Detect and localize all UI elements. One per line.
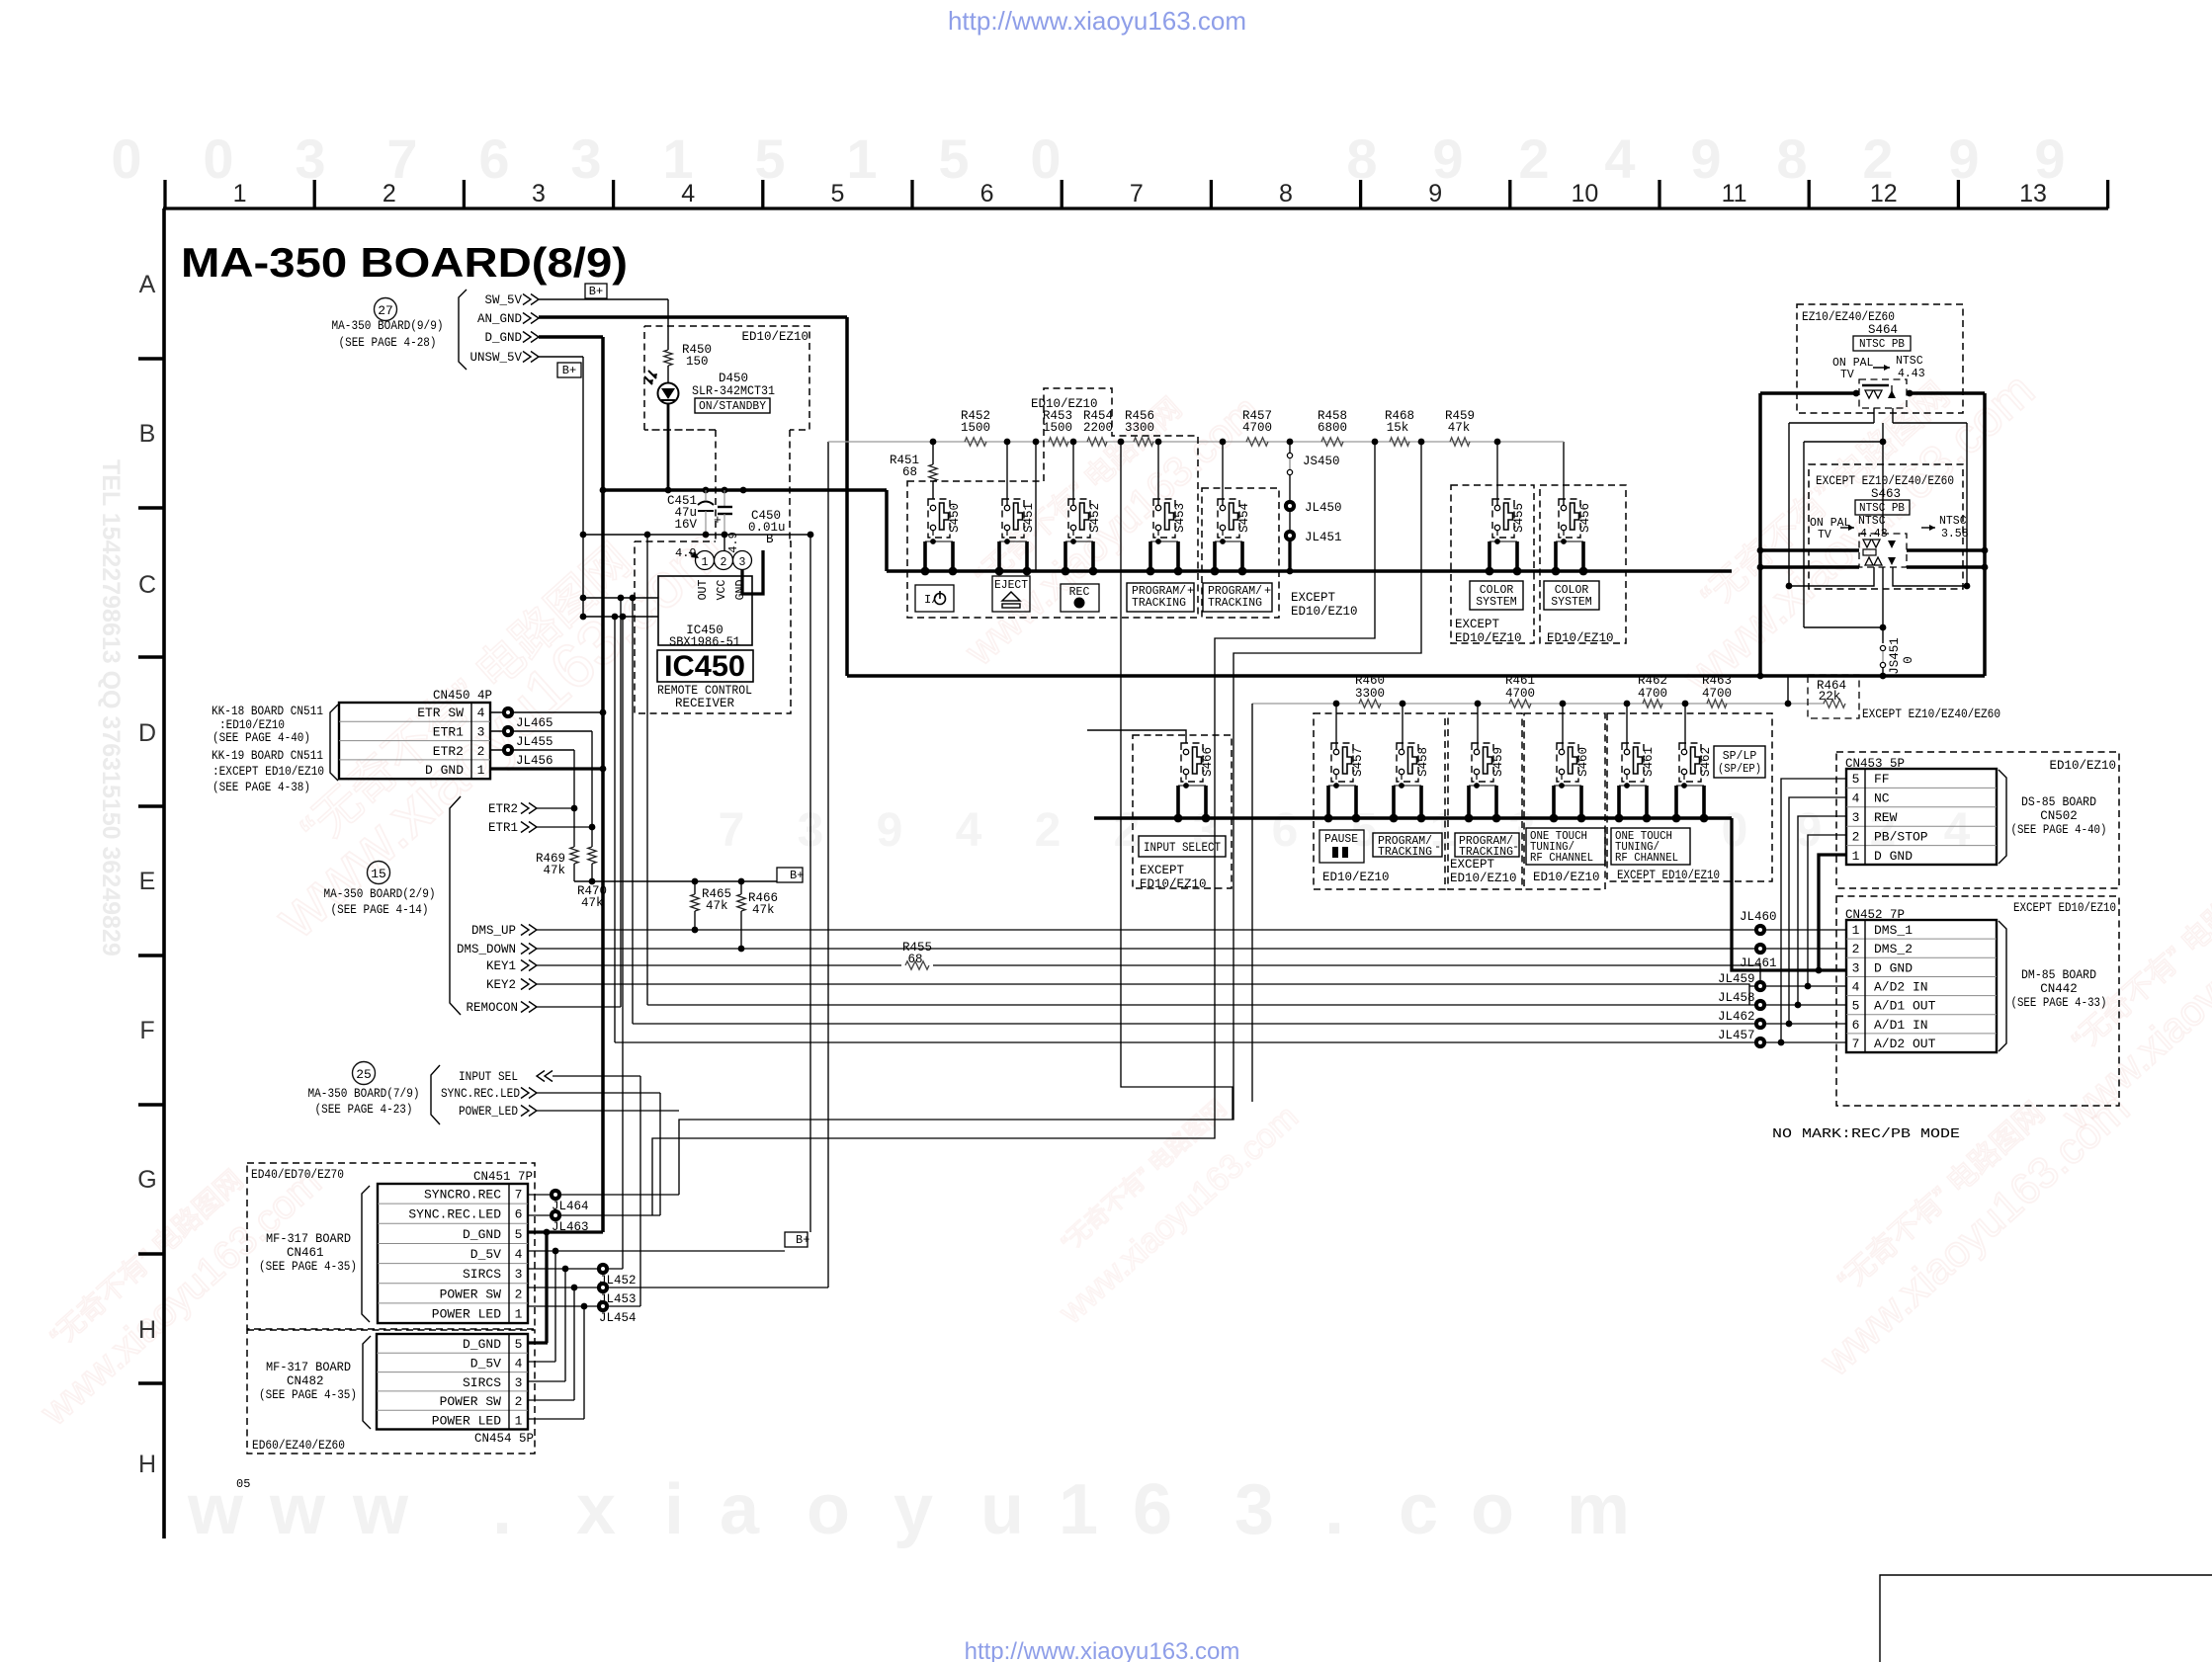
wire loop pin6 chain <box>652 442 1375 1215</box>
svg-text:ETR2: ETR2 <box>488 802 518 816</box>
svg-text:SYSTEM: SYSTEM <box>1551 596 1592 609</box>
svg-text:4: 4 <box>477 706 485 720</box>
switch S460 contacts U <box>1552 786 1556 818</box>
brace signal group low <box>431 1065 440 1124</box>
svg-text:1: 1 <box>515 1413 523 1428</box>
svg-text::ED10/EZ10: :ED10/EZ10 <box>219 718 285 732</box>
dashed box IC450 receiver <box>635 541 791 713</box>
svg-text:CN442: CN442 <box>2040 982 2078 996</box>
ref circle 25 <box>353 1062 376 1085</box>
svg-text:REMOTE CONTROL: REMOTE CONTROL <box>657 684 752 698</box>
svg-text:H: H <box>138 1316 156 1344</box>
wire sync rec led vertical <box>659 1093 661 1215</box>
svg-text:0: 0 <box>203 127 233 190</box>
ref circle 27 <box>375 298 397 321</box>
wire remocon vertical <box>620 598 622 1007</box>
dashed box PAUSE group <box>1314 713 1445 889</box>
B+ label mid <box>777 868 803 882</box>
svg-text:o: o <box>1471 1470 1514 1549</box>
svg-text:0: 0 <box>1030 127 1061 190</box>
switch S457 <box>1331 743 1353 782</box>
svg-text:MA-350 BOARD(8/9): MA-350 BOARD(8/9) <box>181 239 628 286</box>
dashed box ED10/EZ10 D450 <box>644 326 809 430</box>
svg-text:EXCEPT ED10/EZ10: EXCEPT ED10/EZ10 <box>2013 901 2116 915</box>
svg-text:A/D1 IN: A/D1 IN <box>1874 1018 1928 1033</box>
svg-text:7: 7 <box>515 1188 523 1203</box>
svg-text:NTSC PB: NTSC PB <box>1859 502 1905 515</box>
wire S463 feed horizontal <box>1804 441 1883 443</box>
switch S456 <box>1559 499 1580 538</box>
wire bottom thick rail <box>847 674 1985 678</box>
svg-text:(SEE PAGE 4-23): (SEE PAGE 4-23) <box>315 1103 413 1117</box>
wire D_GND down to CN454 <box>545 1232 548 1343</box>
svg-text:S461: S461 <box>1642 747 1656 777</box>
svg-text:u: u <box>980 1470 1024 1549</box>
ic450 body <box>658 576 752 645</box>
switch S450 <box>928 499 950 538</box>
svg-text:REW: REW <box>1874 810 1898 825</box>
resistor R462 <box>1643 700 1662 707</box>
wire right block left vertical <box>1758 393 1762 676</box>
svg-text:TV: TV <box>1840 369 1854 381</box>
svg-text:TRACKING: TRACKING <box>1378 846 1432 859</box>
svg-text:1: 1 <box>515 1306 523 1321</box>
jumper link JL460 <box>1754 924 1766 936</box>
svg-text:4: 4 <box>515 1356 523 1371</box>
svg-text:RF CHANNEL: RF CHANNEL <box>1530 852 1593 865</box>
switch S456 contacts U <box>1554 541 1558 571</box>
svg-text:47k: 47k <box>581 896 604 910</box>
label COLOR SYSTEM 2 <box>1544 581 1599 610</box>
svg-text:D GND: D GND <box>1874 960 1913 975</box>
svg-text:(SEE PAGE 4-28): (SEE PAGE 4-28) <box>339 336 437 350</box>
switch S451 contacts U <box>997 541 1001 571</box>
ref circle 15 <box>368 862 390 884</box>
svg-text:DM-85 BOARD: DM-85 BOARD <box>2021 968 2096 982</box>
svg-text:2: 2 <box>383 180 396 208</box>
svg-text:1: 1 <box>1059 1470 1098 1549</box>
jumper link JL453 <box>597 1282 609 1293</box>
svg-text:S460: S460 <box>1576 747 1590 777</box>
left border line <box>162 208 166 1538</box>
svg-text:SIRCS: SIRCS <box>463 1375 501 1390</box>
svg-text:8: 8 <box>1776 127 1807 190</box>
svg-text:2: 2 <box>1852 942 1860 956</box>
wire S464 pins down <box>1873 408 1875 423</box>
svg-text:MA-350 BOARD(7/9): MA-350 BOARD(7/9) <box>308 1087 420 1101</box>
resistor R461 <box>1509 700 1531 707</box>
resistor R460 <box>1359 700 1381 707</box>
svg-text:i: i <box>664 1470 684 1549</box>
jumper link JL455 <box>490 730 592 732</box>
svg-text:6800: 6800 <box>1318 421 1347 435</box>
svg-text:TV: TV <box>1818 529 1831 541</box>
switch S462 <box>1679 743 1701 782</box>
svg-text:SP/LP: SP/LP <box>1723 750 1757 763</box>
svg-text:3: 3 <box>515 1375 523 1390</box>
brace signal group mid <box>450 796 461 1015</box>
svg-text:NTSC: NTSC <box>1939 515 1967 528</box>
pink watermark right <box>1643 330 2044 706</box>
wire CN453 PB/STOP <box>1808 835 1846 986</box>
dashed group box except S454 <box>1202 488 1279 618</box>
wire pin3 SIRCS <box>528 1268 623 1270</box>
svg-text:G: G <box>137 1166 156 1194</box>
svg-text:R463: R463 <box>1702 674 1732 688</box>
resistor R456 <box>1134 438 1153 446</box>
svg-text:R460: R460 <box>1355 674 1385 688</box>
jumper link JL450 <box>1284 500 1296 512</box>
svg-text:3.58: 3.58 <box>1941 528 1969 540</box>
svg-text:16V: 16V <box>674 518 697 532</box>
svg-text:EXCEPT: EXCEPT <box>1140 864 1185 877</box>
svg-text:POWER SW: POWER SW <box>440 1287 502 1301</box>
svg-text:+: + <box>1187 584 1194 598</box>
B+ label bottom <box>785 1232 808 1247</box>
wire S463 middle down <box>1882 567 1884 643</box>
svg-text:UNSW_5V: UNSW_5V <box>469 351 522 365</box>
wire D_GND bus vertical <box>601 337 605 1232</box>
svg-text:S450: S450 <box>948 503 962 533</box>
resistor R464 dashed box <box>1808 675 1859 718</box>
svg-text:7: 7 <box>719 804 745 857</box>
wire right drop from cap rail <box>808 535 810 642</box>
wire S466 feed <box>1087 730 1186 743</box>
svg-text:D_GND: D_GND <box>484 331 522 345</box>
svg-text:4: 4 <box>1852 791 1860 806</box>
wire S461 top <box>1626 704 1628 750</box>
switch S464 symbol <box>1862 384 1889 387</box>
svg-text:2: 2 <box>721 556 727 569</box>
svg-text:DMS_DOWN: DMS_DOWN <box>457 943 516 956</box>
svg-text:CN451 7P: CN451 7P <box>473 1170 533 1184</box>
switch S461 contacts U <box>1617 786 1621 818</box>
svg-text:SBX1986-51: SBX1986-51 <box>669 635 740 649</box>
svg-text:POWER_LED: POWER_LED <box>459 1105 518 1119</box>
svg-text:150: 150 <box>686 355 709 369</box>
pink watermark small bottom-center <box>1021 1063 1306 1331</box>
svg-text:A/D2 IN: A/D2 IN <box>1874 980 1928 995</box>
svg-text:KK-19 BOARD CN511: KK-19 BOARD CN511 <box>212 749 323 763</box>
svg-text:2: 2 <box>1114 804 1141 857</box>
switch S452 <box>1068 499 1090 538</box>
svg-text:ED10/EZ10: ED10/EZ10 <box>1031 397 1098 411</box>
svg-text:5: 5 <box>515 1337 523 1352</box>
svg-text:4.9: 4.9 <box>726 532 740 553</box>
wire CN450 D GND <box>490 767 603 770</box>
label NTSC PB S464 <box>1853 336 1911 351</box>
capacitor C450 <box>723 490 725 507</box>
svg-text:KEY2: KEY2 <box>486 978 516 992</box>
svg-text:SYSTEM: SYSTEM <box>1476 596 1517 609</box>
svg-text:CN461: CN461 <box>287 1246 324 1260</box>
svg-text:JL455: JL455 <box>516 735 553 749</box>
wire CN453 NC <box>1789 797 1846 1024</box>
svg-text:9: 9 <box>877 804 903 857</box>
svg-text:TRACKING: TRACKING <box>1132 597 1186 610</box>
svg-text:EXCEPT EZ10/EZ40/EZ60: EXCEPT EZ10/EZ40/EZ60 <box>1862 707 2000 721</box>
button PROGRAM/TRACKING - 1 <box>1373 833 1442 857</box>
svg-text:5: 5 <box>938 127 969 190</box>
svg-text:D_GND: D_GND <box>463 1337 501 1352</box>
svg-text:RECEIVER: RECEIVER <box>675 697 735 710</box>
pink watermark right-edge <box>2023 818 2212 1138</box>
svg-text:1: 1 <box>233 180 247 208</box>
jumper link JL461 <box>1754 943 1766 955</box>
svg-text:JL456: JL456 <box>516 754 553 768</box>
wire AN_GND vertical <box>845 317 849 676</box>
B+ label top <box>585 284 607 298</box>
wire LED to rail <box>667 404 670 490</box>
pink watermark center <box>926 354 1268 674</box>
svg-text:9: 9 <box>1690 127 1721 190</box>
svg-text:w: w <box>352 1470 409 1549</box>
svg-text:47k: 47k <box>543 864 565 877</box>
svg-text:NO MARK:REC/PB MODE: NO MARK:REC/PB MODE <box>1772 1127 1960 1142</box>
wire B+ feed <box>574 880 777 882</box>
svg-text:ED40/ED70/EZ70: ED40/ED70/EZ70 <box>251 1168 344 1182</box>
svg-text:(SEE PAGE 4-40): (SEE PAGE 4-40) <box>2011 823 2107 837</box>
switch S460 <box>1557 743 1578 782</box>
button PAUSE <box>1319 830 1364 863</box>
switch bus row1 <box>887 569 1732 573</box>
jumper link JL457 <box>1754 1037 1766 1048</box>
jumper JS450 <box>1289 444 1291 453</box>
dashed box COLOR SYSTEM ed10 <box>1540 485 1626 643</box>
wire JL451 to bus <box>1288 541 1291 571</box>
svg-text:D GND: D GND <box>425 763 464 778</box>
switch S453 contacts U <box>1149 541 1152 571</box>
wire loop pin7 SYNCRO.REC <box>679 442 1421 1195</box>
svg-text:CN482: CN482 <box>287 1374 324 1388</box>
svg-text:R461: R461 <box>1505 674 1535 688</box>
svg-text::EXCEPT ED10/EZ10: :EXCEPT ED10/EZ10 <box>213 765 324 779</box>
junction dots row2 <box>1333 701 1340 707</box>
resistor R454 <box>1087 438 1107 446</box>
svg-text:4: 4 <box>515 1247 523 1262</box>
svg-text:A/D2 OUT: A/D2 OUT <box>1874 1037 1936 1051</box>
wire S458 top <box>1402 704 1404 750</box>
switch S464 dashed box <box>1859 379 1907 408</box>
svg-text:NC: NC <box>1874 791 1890 806</box>
switch S454 contacts U <box>1213 541 1217 571</box>
svg-text:27: 27 <box>378 303 393 318</box>
resistor R463 <box>1707 700 1727 707</box>
svg-text:D_GND: D_GND <box>463 1227 501 1242</box>
svg-text:TEL 15422798613 QQ 376315150 3: TEL 15422798613 QQ 376315150 36249829 <box>97 459 125 956</box>
wire SW_5V <box>539 298 668 300</box>
svg-text:B+: B+ <box>796 1233 809 1247</box>
svg-text:JL457: JL457 <box>1718 1029 1755 1042</box>
wire thick S464 row <box>1760 391 1859 395</box>
wire mid vertical a <box>614 617 616 1042</box>
jumper link JL465 <box>490 711 603 713</box>
svg-text:9: 9 <box>1428 180 1442 208</box>
svg-text:S466: S466 <box>1201 747 1215 777</box>
switch S451 <box>1002 499 1024 538</box>
switch S458 <box>1397 743 1418 782</box>
wire mid vertical c <box>646 535 648 1005</box>
svg-text:EXCEPT: EXCEPT <box>1291 591 1336 605</box>
resistor R450 <box>664 350 672 366</box>
wire vertical POWER LED chain <box>583 1306 585 1419</box>
svg-text:http://www.xiaoyu163.com: http://www.xiaoyu163.com <box>965 1638 1240 1662</box>
wire mid vertical b <box>632 598 634 1024</box>
jumper link JL458 <box>1754 999 1766 1011</box>
label SP/LP box <box>1714 746 1765 778</box>
svg-text:x: x <box>576 1470 616 1549</box>
svg-text:JL461: JL461 <box>1740 956 1777 970</box>
wire S454 top <box>1222 442 1224 506</box>
svg-text:ED60/EZ40/EZ60: ED60/EZ40/EZ60 <box>252 1439 345 1453</box>
svg-text:15k: 15k <box>1387 421 1409 435</box>
svg-text:FF: FF <box>1874 772 1890 787</box>
svg-text:.: . <box>1324 1470 1344 1549</box>
wire VCC feed <box>723 535 725 550</box>
svg-text:47k: 47k <box>706 899 728 913</box>
svg-text:ETR1: ETR1 <box>433 724 464 739</box>
svg-text:w: w <box>269 1470 326 1549</box>
svg-text:VCC: VCC <box>716 580 728 601</box>
svg-text:EXCEPT EZ10/EZ40/EZ60: EXCEPT EZ10/EZ40/EZ60 <box>1816 474 1954 488</box>
svg-text:3: 3 <box>1234 1470 1274 1549</box>
svg-text:S455: S455 <box>1512 503 1526 533</box>
wire S462 top <box>1684 704 1686 750</box>
svg-text:4700: 4700 <box>1242 421 1272 435</box>
svg-text:0: 0 <box>1902 656 1915 664</box>
wire S453 top <box>1157 442 1159 506</box>
svg-text:3: 3 <box>1852 810 1860 825</box>
svg-text:4700: 4700 <box>1505 687 1535 701</box>
svg-text:(SEE PAGE 4-35): (SEE PAGE 4-35) <box>259 1260 357 1274</box>
dashed box DM-85 CN452 <box>1836 896 2119 1106</box>
svg-text:4: 4 <box>681 180 695 208</box>
svg-text:POWER SW: POWER SW <box>440 1394 502 1409</box>
svg-text:C: C <box>138 571 156 599</box>
svg-text:22k: 22k <box>1819 690 1841 704</box>
svg-text:(SP/EP): (SP/EP) <box>1718 763 1761 776</box>
svg-text:a: a <box>720 1470 760 1549</box>
svg-text:3: 3 <box>739 556 746 569</box>
svg-text:D_5V: D_5V <box>470 1247 501 1262</box>
svg-text:(SEE PAGE 4-38): (SEE PAGE 4-38) <box>213 781 310 794</box>
svg-text:1: 1 <box>1852 923 1860 938</box>
switch S454 <box>1218 499 1239 538</box>
svg-text:REMOCON: REMOCON <box>466 1001 518 1015</box>
svg-text:2: 2 <box>1852 829 1860 844</box>
wire vertical 1134 lower <box>1121 571 1233 1120</box>
svg-text:5: 5 <box>1852 999 1860 1014</box>
svg-text:11: 11 <box>1722 180 1747 208</box>
svg-text:5: 5 <box>1852 772 1860 787</box>
switch S466 <box>1181 743 1203 782</box>
label INPUT SELECT box <box>1139 836 1226 857</box>
svg-text:KEY1: KEY1 <box>486 959 516 973</box>
label COLOR SYSTEM 1 <box>1470 581 1523 610</box>
resistor R469 <box>573 808 575 847</box>
svg-text:ED10/EZ10: ED10/EZ10 <box>2049 759 2116 773</box>
label NTSC PB S463 <box>1855 500 1910 515</box>
svg-text:CN502: CN502 <box>2040 809 2078 823</box>
wire JL459 row <box>1749 985 1846 987</box>
svg-text:SYNCRO.REC: SYNCRO.REC <box>424 1188 501 1203</box>
svg-text:(SEE PAGE 4-35): (SEE PAGE 4-35) <box>259 1388 357 1402</box>
wire CN453 FF <box>1781 779 1846 1042</box>
svg-text:ED10/EZ10: ED10/EZ10 <box>1455 631 1522 645</box>
svg-text:JL459: JL459 <box>1718 972 1755 986</box>
svg-text:(SEE PAGE 4-40): (SEE PAGE 4-40) <box>213 731 310 745</box>
svg-text:NTSC PB: NTSC PB <box>1859 338 1905 351</box>
wire input sel vertical <box>639 1076 641 1306</box>
switch S457 contacts U <box>1326 786 1330 818</box>
svg-text:7: 7 <box>1130 180 1144 208</box>
svg-text:1: 1 <box>477 763 485 778</box>
brace CN454 <box>363 1336 371 1429</box>
svg-text:3300: 3300 <box>1125 421 1154 435</box>
svg-text:ED10/EZ10: ED10/EZ10 <box>1533 871 1600 884</box>
svg-text:ON/STANDBY: ON/STANDBY <box>699 399 766 413</box>
svg-text:INPUT SEL: INPUT SEL <box>459 1070 518 1084</box>
wire pin5 D_GND thick <box>528 1230 603 1233</box>
svg-text:+: + <box>714 513 722 528</box>
resistor R466 <box>740 881 742 894</box>
svg-text:(SEE PAGE 4-14): (SEE PAGE 4-14) <box>331 903 429 917</box>
switch S463 symbol <box>1863 540 1880 547</box>
switch S452 contacts U <box>1063 541 1067 571</box>
wire S455 top <box>1496 442 1498 506</box>
svg-text:0: 0 <box>111 127 141 190</box>
svg-text:JL454: JL454 <box>599 1311 637 1325</box>
wire S460 top <box>1562 704 1564 750</box>
LED D450 <box>658 383 679 404</box>
connector CN452 <box>1846 920 1997 1052</box>
switch S450 contacts U <box>923 541 927 571</box>
svg-text:TRACKING: TRACKING <box>1208 597 1262 610</box>
svg-text:6: 6 <box>515 1207 523 1222</box>
svg-text:ED10/EZ10: ED10/EZ10 <box>1547 631 1614 645</box>
svg-text:B+: B+ <box>790 869 804 882</box>
pink watermark bottom-left <box>2 1126 330 1435</box>
switch S463 dashed box <box>1859 534 1907 567</box>
ruler top line <box>163 207 2108 209</box>
brace CN451 <box>362 1186 370 1322</box>
svg-text:MF-317 BOARD: MF-317 BOARD <box>266 1232 351 1246</box>
svg-text:A: A <box>139 271 156 298</box>
button PROGRAM/TRACKING + 1 <box>1127 583 1194 612</box>
svg-text:4: 4 <box>1604 127 1635 190</box>
svg-text:ETR1: ETR1 <box>488 821 518 835</box>
switch S466 contacts U <box>1176 786 1180 818</box>
button PROGRAM/TRACKING + 2 <box>1203 583 1272 612</box>
svg-text:INPUT SELECT: INPUT SELECT <box>1144 841 1221 855</box>
svg-text:7: 7 <box>1852 1037 1860 1051</box>
svg-text:B: B <box>139 420 156 448</box>
svg-text:-: - <box>1434 840 1441 854</box>
svg-text:S451: S451 <box>1022 503 1036 533</box>
svg-text:3: 3 <box>515 1267 523 1282</box>
svg-text:SYNC.REC.LED: SYNC.REC.LED <box>441 1087 520 1101</box>
switch S455 contacts U <box>1488 541 1491 571</box>
svg-text:2: 2 <box>1518 127 1549 190</box>
wire long vertical from row1 a <box>1035 444 1037 571</box>
svg-text:-: - <box>1512 840 1519 854</box>
wire pin6 sync rec led <box>528 1214 660 1216</box>
button PROGRAM/TRACKING - 2 <box>1455 833 1519 857</box>
svg-text:25: 25 <box>356 1067 372 1082</box>
svg-text:NTSC: NTSC <box>1858 515 1886 528</box>
wire AN_GND <box>539 315 847 319</box>
wire CN453 D GND thick <box>1819 855 1846 970</box>
